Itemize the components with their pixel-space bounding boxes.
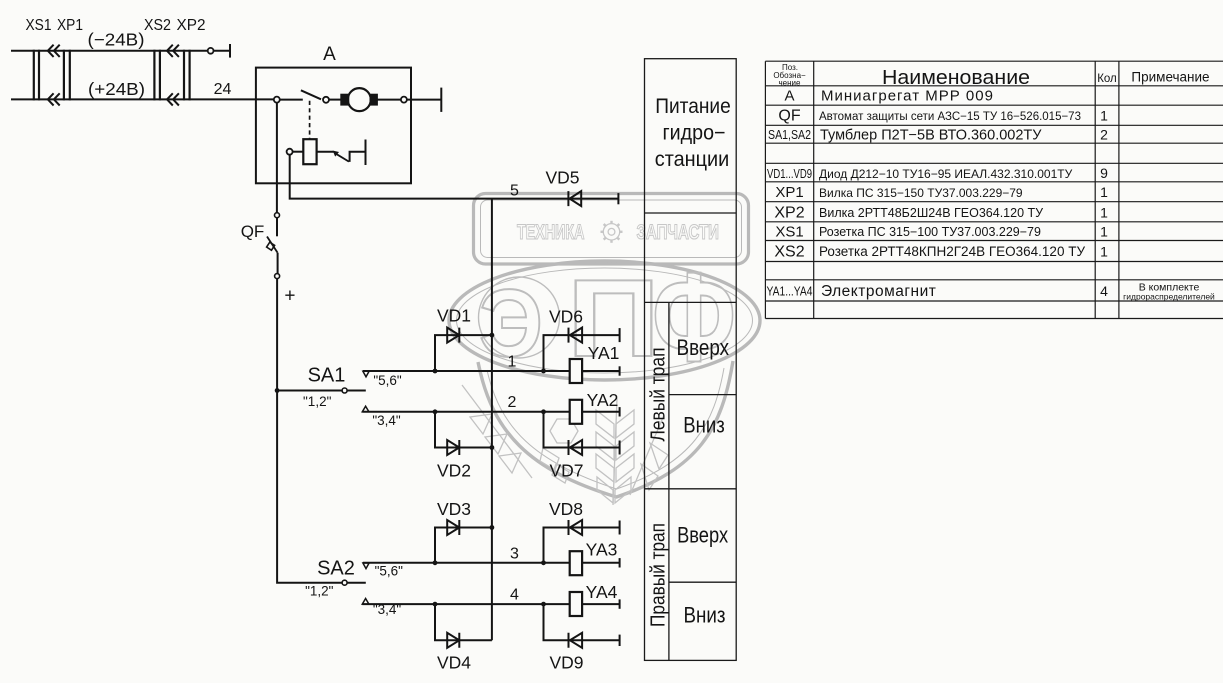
diode VD6 bbox=[569, 328, 583, 343]
coil YA1 bbox=[570, 359, 582, 383]
motor brush right bbox=[371, 95, 377, 105]
diode VD1 bbox=[447, 328, 459, 343]
TABLE bbox=[765, 61, 1223, 318]
diode VD7 bbox=[569, 440, 583, 455]
switch pivot circle in A bbox=[323, 97, 329, 103]
svg-text:VD1...VD9: VD1...VD9 bbox=[767, 167, 812, 181]
svg-text:2: 2 bbox=[1100, 127, 1108, 143]
svg-text:9: 9 bbox=[1100, 165, 1108, 181]
coil YA4 bbox=[570, 592, 582, 616]
terminal bar VD9 bbox=[619, 635, 621, 646]
svg-text:Вверх: Вверх bbox=[677, 335, 730, 360]
SA1 pivot line bbox=[277, 390, 342, 392]
svg-text:A: A bbox=[784, 88, 794, 105]
junction dot line2-VD2 bbox=[433, 409, 438, 414]
svg-text:XP2: XP2 bbox=[177, 17, 206, 34]
svg-text:VD5: VD5 bbox=[545, 167, 579, 187]
contact chevrons XS2-XP2 top wire bbox=[167, 45, 179, 57]
divider Vverh/Vniz left ramp bbox=[669, 394, 736, 396]
svg-text:XS2: XS2 bbox=[144, 17, 171, 34]
diode VD4 bbox=[447, 633, 459, 648]
VD1 stub bbox=[435, 335, 492, 371]
connector XS2 bbox=[154, 50, 160, 101]
SA1 contact 5,6 bbox=[363, 371, 369, 377]
svg-text:XP1: XP1 bbox=[775, 184, 803, 201]
motor M1 bbox=[348, 88, 371, 111]
inner vertical line ramp label column bbox=[668, 302, 670, 660]
connector XP2 bbox=[184, 50, 190, 101]
svg-text:YA1: YA1 bbox=[588, 343, 620, 363]
terminal bar VD6 bbox=[619, 328, 621, 342]
connector XP1 bbox=[64, 50, 70, 101]
diode VD3 bbox=[447, 520, 459, 535]
contact chevrons XS2-XP2 bottom wire bbox=[167, 93, 179, 105]
svg-text:1: 1 bbox=[1100, 184, 1108, 200]
wire to motor bbox=[329, 99, 341, 101]
divider between ramp sections bbox=[645, 488, 737, 490]
node top-right open circle bbox=[208, 48, 214, 54]
svg-text:Розетка 2РТТ48КПН2Г24В ГЕО36: Розетка 2РТТ48КПН2Г24В ГЕО364.120 ТУ bbox=[819, 244, 1085, 259]
contact chevrons XS1-XP1 bottom wire bbox=[48, 93, 60, 105]
coil YA2 bbox=[570, 400, 582, 424]
svg-text:Кол: Кол bbox=[1097, 73, 1117, 85]
diode VD5 bbox=[568, 191, 581, 206]
svg-text:+: + bbox=[284, 286, 295, 307]
QF lower lead bbox=[277, 253, 279, 274]
svg-text:"5,6": "5,6" bbox=[375, 564, 404, 579]
relay contact riser bbox=[350, 152, 366, 162]
svg-text:(+24В): (+24В) bbox=[88, 79, 145, 99]
table horizontal rules bbox=[765, 61, 1223, 318]
relay contact blade bbox=[335, 153, 349, 161]
svg-text:1: 1 bbox=[1100, 223, 1108, 239]
svg-text:(−24В): (−24В) bbox=[88, 30, 145, 50]
QF blade bbox=[267, 237, 278, 253]
svg-text:Питание: Питание bbox=[655, 95, 731, 118]
svg-text:YA1...YA4: YA1...YA4 bbox=[767, 284, 813, 299]
svg-text:1: 1 bbox=[1100, 108, 1108, 124]
junction dot line3-VD3 bbox=[433, 560, 438, 565]
SA1 contact 3,4 bbox=[362, 406, 369, 412]
node circle right in A bbox=[401, 97, 407, 103]
svg-text:Электромагнит: Электромагнит bbox=[821, 283, 936, 300]
QF bottom circle bbox=[275, 274, 280, 279]
svg-text:VD2: VD2 bbox=[437, 460, 471, 480]
terminal bar line 2 bbox=[619, 407, 621, 416]
svg-text:VD1: VD1 bbox=[437, 305, 471, 325]
node circle left in A bbox=[274, 97, 280, 103]
svg-text:XP1: XP1 bbox=[57, 17, 83, 34]
svg-text:XS1: XS1 bbox=[26, 17, 52, 34]
connector XS1 bbox=[34, 50, 39, 101]
relay contact arrowhead bbox=[334, 151, 339, 155]
unit A box bbox=[256, 68, 411, 184]
svg-text:XS2: XS2 bbox=[774, 244, 804, 261]
wire line 5 bbox=[290, 155, 619, 199]
junction dot line4-VD9 bbox=[541, 602, 546, 607]
VD2 stub bbox=[435, 412, 492, 448]
wire line 4 bbox=[362, 603, 619, 605]
QF top circle bbox=[275, 213, 280, 218]
SA1 blade bbox=[347, 390, 366, 392]
svg-text:ТЕХНИКА: ТЕХНИКА bbox=[517, 221, 585, 244]
svg-text:1: 1 bbox=[508, 354, 517, 371]
motor brush left bbox=[341, 95, 348, 105]
terminal bar relay contact bbox=[365, 140, 367, 166]
svg-text:Правый трап: Правый трап bbox=[647, 523, 669, 627]
svg-text:Диод Д212−10 ТУ16−95 ИЕАЛ.4: Диод Д212−10 ТУ16−95 ИЕАЛ.432.310.001ТУ bbox=[819, 167, 1073, 181]
svg-text:VD9: VD9 bbox=[549, 652, 583, 672]
svg-text:"1,2": "1,2" bbox=[305, 583, 334, 598]
switch blade in A bbox=[301, 90, 321, 99]
junction dot bus-VD2 bbox=[490, 445, 495, 450]
svg-text:Левый трап: Левый трап bbox=[647, 348, 669, 442]
switch fixed lead in A bbox=[280, 99, 303, 101]
svg-text:4: 4 bbox=[1100, 283, 1108, 299]
coil YA3 bbox=[570, 551, 582, 575]
svg-text:гидро−: гидро− bbox=[663, 122, 726, 145]
svg-text:чение: чение bbox=[779, 79, 802, 88]
SA2 contact 5,6 bbox=[363, 563, 369, 569]
wire line 3 bbox=[363, 562, 620, 564]
svg-text:Вилка ПС 315−150 ТУ37.003: Вилка ПС 315−150 ТУ37.003.229−79 bbox=[819, 186, 1023, 200]
svg-text:Примечание: Примечание bbox=[1131, 70, 1209, 85]
svg-text:Миниагрегат МРР 009: Миниагрегат МРР 009 bbox=[821, 88, 994, 105]
wire QF down to SA1/SA2 bbox=[277, 279, 342, 583]
svg-text:Тумблер П2Т−5В ВТО.360.002ТУ: Тумблер П2Т−5В ВТО.360.002ТУ bbox=[820, 128, 1042, 144]
QF breaker square bbox=[267, 242, 275, 250]
svg-text:SA1,SA2: SA1,SA2 bbox=[768, 128, 811, 142]
svg-text:Вилка 2РТТ48Б2Ш24В ГЕО364.12: Вилка 2РТТ48Б2Ш24В ГЕО364.120 ТУ bbox=[819, 206, 1043, 220]
wire bottom (+24V) bbox=[11, 98, 274, 100]
relay pin link bbox=[293, 151, 304, 153]
svg-text:VD3: VD3 bbox=[437, 499, 471, 519]
svg-text:Розетка ПС 315−100 ТУ37.0: Розетка ПС 315−100 ТУ37.003.229−79 bbox=[819, 225, 1041, 239]
svg-text:"3,4": "3,4" bbox=[372, 413, 401, 428]
junction dot line1-VD6 bbox=[541, 369, 546, 374]
svg-text:гидрораспределителей: гидрораспределителей bbox=[1123, 292, 1215, 302]
svg-text:XS1: XS1 bbox=[775, 223, 803, 240]
bus vertical bbox=[491, 199, 493, 641]
wire top (-24V) bbox=[11, 50, 230, 52]
WATERMARK bbox=[449, 194, 760, 506]
svg-text:5: 5 bbox=[510, 182, 519, 199]
terminal bar line 5 bbox=[617, 193, 619, 204]
svg-text:"5,6": "5,6" bbox=[373, 373, 402, 388]
junction dot line4-VD4 bbox=[433, 602, 438, 607]
svg-text:Вниз: Вниз bbox=[684, 602, 726, 627]
VD3 stub bbox=[435, 528, 492, 563]
svg-text:SA2: SA2 bbox=[317, 557, 355, 579]
divider below power section bbox=[645, 212, 737, 214]
svg-text:VD8: VD8 bbox=[549, 499, 583, 519]
terminal bar VD8 bbox=[619, 521, 621, 535]
diode VD8 bbox=[569, 520, 583, 535]
relay coil K in A bbox=[303, 139, 316, 164]
svg-text:2: 2 bbox=[508, 394, 517, 411]
svg-text:VD6: VD6 bbox=[549, 307, 583, 327]
junction dot line3-VD8 bbox=[541, 560, 546, 565]
terminal bar VD7 bbox=[619, 441, 621, 455]
contact chevrons XS1-XP1 top wire bbox=[48, 45, 60, 57]
VD7 stub bbox=[544, 412, 620, 448]
svg-text:ЗАПЧАСТИ: ЗАПЧАСТИ bbox=[637, 221, 720, 244]
table vertical rules bbox=[765, 61, 1119, 318]
junction dot line2-VD7 bbox=[541, 409, 546, 414]
svg-text:"1,2": "1,2" bbox=[303, 394, 332, 409]
junction dot SA1 tap bbox=[275, 388, 280, 393]
QF upper lead bbox=[276, 218, 278, 237]
relay pin circle bbox=[287, 149, 293, 155]
svg-text:VD4: VD4 bbox=[437, 652, 471, 672]
function column frame bbox=[645, 59, 737, 661]
svg-text:3: 3 bbox=[510, 546, 519, 563]
relay contact lead bbox=[317, 151, 334, 153]
SA2 blade bbox=[347, 582, 366, 584]
VD4 stub bbox=[435, 604, 492, 640]
terminal bar line 4 bbox=[619, 599, 621, 608]
VD6 stub bbox=[544, 335, 620, 371]
svg-text:1: 1 bbox=[1100, 244, 1108, 260]
svg-text:Наименование: Наименование bbox=[882, 67, 1030, 89]
VD8 stub bbox=[544, 528, 620, 563]
svg-text:QF: QF bbox=[778, 108, 800, 125]
wire motor to node bbox=[377, 99, 401, 101]
svg-text:A: A bbox=[323, 44, 336, 65]
svg-text:Автомат защиты сети АЗС−15: Автомат защиты сети АЗС−15 ТУ 16−526.015… bbox=[819, 111, 1081, 123]
svg-text:Вверх: Вверх bbox=[677, 522, 729, 547]
terminal bar right of A bbox=[440, 88, 442, 112]
VD9 stub bbox=[544, 604, 620, 640]
wire to right terminal bbox=[407, 99, 441, 101]
svg-text:YA2: YA2 bbox=[587, 390, 619, 410]
SA1 pivot circle bbox=[342, 388, 347, 393]
svg-text:Вниз: Вниз bbox=[683, 413, 725, 438]
svg-text:YA4: YA4 bbox=[586, 582, 618, 602]
diode VD2 bbox=[447, 440, 459, 455]
wire line 2 bbox=[362, 411, 619, 413]
SA2 pivot circle bbox=[342, 580, 347, 585]
terminal bar line 3 bbox=[619, 558, 621, 567]
junction dot line1-VD1 bbox=[433, 369, 438, 374]
svg-text:1: 1 bbox=[1100, 204, 1108, 220]
svg-text:YA3: YA3 bbox=[586, 540, 618, 560]
svg-text:SA1: SA1 bbox=[308, 365, 346, 387]
wire line 1 bbox=[363, 370, 620, 372]
svg-text:24: 24 bbox=[214, 81, 232, 98]
svg-text:XP2: XP2 bbox=[774, 204, 804, 221]
svg-text:4: 4 bbox=[510, 587, 519, 604]
divider Vverh/Vniz right ramp bbox=[669, 581, 736, 583]
junction dot bus-VD1 bbox=[490, 333, 495, 338]
terminal bar line 1 bbox=[619, 366, 621, 375]
svg-text:VD7: VD7 bbox=[549, 460, 583, 480]
svg-text:"3,4": "3,4" bbox=[373, 602, 402, 617]
svg-text:станции: станции bbox=[655, 148, 730, 171]
diode VD9 bbox=[569, 633, 583, 648]
SA2 contact 3,4 bbox=[362, 599, 369, 605]
divider top of left ramp section bbox=[645, 301, 737, 303]
RIGHT COLUMN bbox=[645, 59, 737, 661]
terminal bar top-right bbox=[229, 44, 231, 58]
dashed link switch-relay bbox=[309, 101, 311, 139]
junction dot bus-VD3 bbox=[490, 525, 495, 530]
wire node A down to QF bbox=[276, 103, 278, 213]
svg-text:QF: QF bbox=[241, 222, 265, 241]
